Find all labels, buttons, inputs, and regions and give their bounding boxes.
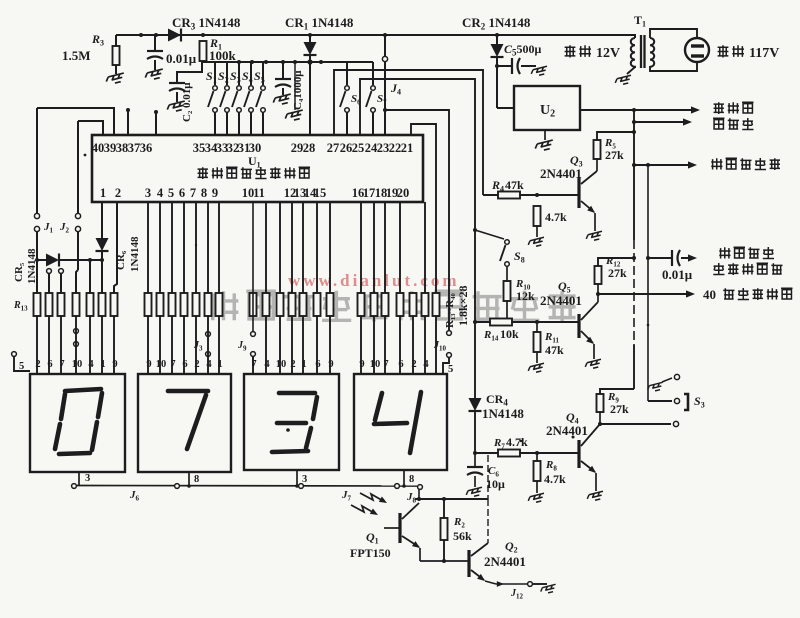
wire 40 ohm speaker line — [598, 293, 689, 295]
svg-text:4.7k: 4.7k — [545, 210, 567, 224]
resistor R6 4.7k — [534, 206, 541, 226]
svg-text:0.01μ: 0.01μ — [662, 267, 693, 282]
ground below Q5 emitter — [584, 359, 602, 370]
wire secondary to plug — [650, 29, 697, 38]
display digit 1 box — [30, 374, 125, 472]
wire Q2 emitter to J12 — [485, 581, 496, 584]
svg-text:27: 27 — [327, 141, 340, 155]
svg-text:C5500μ: C5500μ — [504, 42, 542, 58]
svg-text:CR2 1N4148: CR2 1N4148 — [462, 15, 531, 32]
label C4 1000u — [292, 70, 304, 110]
svg-text:6: 6 — [47, 359, 52, 370]
ground below C2 — [166, 101, 186, 113]
svg-text:15: 15 — [314, 186, 327, 200]
svg-text:39: 39 — [104, 141, 117, 155]
transformer core — [640, 35, 642, 68]
ground below R6 — [527, 237, 545, 248]
svg-text:36: 36 — [140, 141, 153, 155]
svg-text:6: 6 — [398, 359, 403, 370]
digit 0 — [65, 389, 101, 391]
svg-text:10: 10 — [370, 359, 381, 370]
diode CR5 1N4148 — [13, 262, 25, 282]
svg-text:28: 28 — [303, 141, 316, 155]
switch S1 — [214, 62, 216, 85]
ground below R8 — [527, 493, 545, 504]
svg-text:23: 23 — [377, 141, 390, 155]
wire 12V rail down — [633, 110, 635, 240]
label to radio audio amplifier — [719, 247, 730, 258]
resistor R8 4.7k — [536, 453, 538, 461]
diode CR6 1N4148 — [115, 250, 127, 270]
svg-text:21: 21 — [401, 141, 414, 155]
wire Q2 collector riser — [487, 455, 489, 499]
svg-text:6: 6 — [179, 186, 185, 200]
capacitor 0.01u top-left — [154, 35, 156, 51]
label AC 117V — [718, 45, 729, 57]
svg-text:3: 3 — [145, 186, 151, 200]
svg-text:35: 35 — [193, 141, 206, 155]
resistor R2 56k — [443, 499, 445, 518]
svg-text:27k: 27k — [608, 266, 627, 280]
wire route J4 to J10 — [385, 110, 449, 330]
svg-text:4: 4 — [88, 359, 94, 370]
svg-text:117V: 117V — [749, 46, 779, 61]
svg-text:1: 1 — [100, 186, 106, 200]
switch S4 — [250, 62, 252, 85]
svg-text:10: 10 — [156, 359, 167, 370]
svg-text:4: 4 — [423, 359, 429, 370]
resistor R9 27k — [600, 389, 634, 394]
scan specks — [84, 154, 87, 157]
wire radio ground line — [634, 164, 691, 166]
svg-text:CR1 1N4148: CR1 1N4148 — [285, 15, 354, 32]
svg-text:2N4401: 2N4401 — [484, 554, 526, 569]
wire route pin21 to resistor bank — [411, 124, 436, 293]
switch S5 — [262, 62, 264, 85]
watermark company name — [209, 291, 238, 320]
connector on J2 column — [74, 329, 79, 334]
svg-text:1N4148: 1N4148 — [26, 248, 38, 284]
svg-text:1: 1 — [301, 359, 306, 370]
svg-text:8: 8 — [194, 474, 199, 485]
svg-text:7: 7 — [59, 359, 64, 370]
svg-text:2: 2 — [411, 359, 416, 370]
wires resistor bank to displays — [36, 316, 38, 374]
svg-text:26: 26 — [340, 141, 353, 155]
svg-text:2: 2 — [194, 359, 199, 370]
wire route pin27 to R4 — [334, 70, 483, 195]
svg-text:7: 7 — [251, 359, 256, 370]
svg-text:47k: 47k — [545, 343, 564, 357]
connector J2 — [78, 121, 103, 135]
svg-text:9: 9 — [359, 359, 364, 370]
svg-text:12V: 12V — [596, 46, 620, 61]
svg-text:2: 2 — [35, 359, 40, 370]
svg-text:56k: 56k — [453, 529, 472, 543]
ground near pins 29-28 — [294, 62, 296, 110]
resistor bank R13-R40 1.8k x28 — [34, 293, 41, 316]
label R13-R40 1.8k x28 — [444, 292, 456, 328]
svg-text:20: 20 — [397, 186, 410, 200]
connector J9 — [252, 202, 254, 331]
switch S3 pushbutton — [674, 374, 679, 379]
switch S2 — [226, 62, 228, 85]
ground at J12 — [540, 584, 557, 594]
connector J10 — [448, 329, 450, 332]
ground below U2 — [544, 130, 546, 140]
svg-text:C₄1000μ: C₄1000μ — [292, 70, 304, 110]
svg-text:2N4401: 2N4401 — [540, 293, 582, 308]
svg-text:7: 7 — [383, 359, 388, 370]
capacitor 0.01u coupling — [646, 256, 650, 260]
wire top supply rail — [116, 34, 617, 36]
svg-text:17: 17 — [363, 186, 376, 200]
wire into U2 — [497, 107, 514, 109]
svg-text:8: 8 — [409, 474, 414, 485]
ground below R3 — [105, 73, 125, 85]
display digit 4 box — [354, 374, 447, 470]
ground below C6 — [465, 487, 483, 498]
svg-text:30: 30 — [249, 141, 262, 155]
svg-text:2: 2 — [115, 186, 121, 200]
svg-text:4.7k: 4.7k — [506, 435, 528, 449]
svg-text:25: 25 — [352, 141, 365, 155]
ground below Q4 emitter — [586, 491, 604, 502]
wire speaker return — [634, 121, 687, 123]
capacitor C4 1000u — [282, 62, 284, 79]
svg-text:0.01μ: 0.01μ — [166, 51, 197, 66]
svg-text:1.5M: 1.5M — [62, 48, 91, 63]
wire radio speaker output — [580, 109, 694, 111]
svg-text:2N4401: 2N4401 — [540, 166, 582, 181]
resistor R5 27k — [597, 132, 634, 140]
svg-text:27k: 27k — [605, 148, 624, 162]
svg-text:1N4148: 1N4148 — [482, 406, 524, 421]
wire stub pin 37 — [155, 112, 157, 135]
AC plug 117V — [685, 38, 709, 62]
svg-text:29: 29 — [291, 141, 304, 155]
IC U1 digital clock chip — [92, 135, 423, 202]
switch S7 — [372, 62, 374, 85]
svg-text:6: 6 — [315, 359, 320, 370]
svg-text:37: 37 — [128, 141, 141, 155]
digit 3 — [279, 391, 315, 396]
display 1 pin 5 lead — [12, 352, 17, 357]
svg-text:3: 3 — [302, 474, 307, 485]
switch S6 — [346, 62, 348, 85]
svg-text:6: 6 — [182, 359, 187, 370]
svg-text:5: 5 — [168, 186, 174, 200]
svg-text:11: 11 — [253, 186, 265, 200]
label AC 12V — [565, 45, 576, 57]
svg-text:1: 1 — [100, 359, 105, 370]
svg-text:2: 2 — [290, 359, 295, 370]
svg-text:7: 7 — [190, 186, 196, 200]
resistor R10 12k — [504, 281, 511, 301]
display digit 3 box — [244, 374, 339, 470]
svg-text:9: 9 — [146, 359, 151, 370]
svg-text:38: 38 — [116, 141, 129, 155]
svg-text:1N4148: 1N4148 — [129, 236, 141, 272]
light arrows into Q1 — [351, 493, 385, 514]
svg-text:FPT150: FPT150 — [350, 546, 391, 560]
svg-text:9: 9 — [112, 359, 117, 370]
svg-text:R₁₃~R₄₀: R₁₃~R₄₀ — [444, 292, 456, 328]
label radio ground — [711, 158, 722, 169]
svg-text:9: 9 — [328, 359, 333, 370]
capacitor C6 10u — [474, 453, 476, 467]
digit 4 — [375, 393, 382, 420]
svg-text:3: 3 — [85, 473, 90, 484]
svg-text:1.8k×28: 1.8k×28 — [456, 285, 470, 326]
svg-text:10: 10 — [72, 359, 83, 370]
connector J4 — [384, 35, 386, 56]
wire stub pin 38 — [127, 110, 129, 135]
svg-text:47k: 47k — [505, 178, 524, 192]
wire resistor column stubs — [47, 269, 52, 274]
ground below Q3 emitter — [585, 231, 603, 242]
connector J3 — [206, 332, 211, 337]
connector J1 — [36, 108, 38, 213]
svg-text:7: 7 — [170, 359, 175, 370]
ground below C4 — [272, 94, 292, 106]
wire Q4 collector to S3 — [600, 423, 671, 425]
wire branch down from ground line — [647, 165, 649, 401]
svg-text:10μ: 10μ — [486, 477, 505, 491]
wire C2 branch — [177, 62, 202, 83]
display digit 2 box — [138, 374, 231, 472]
wires IC pins to resistor bank — [147, 202, 149, 293]
svg-text:4: 4 — [206, 359, 212, 370]
svg-text:22: 22 — [389, 141, 402, 155]
ground below transformer primary — [614, 75, 632, 86]
resistor R14 10k — [475, 321, 579, 323]
resistor R11 47k — [536, 322, 538, 332]
svg-text:4.7k: 4.7k — [544, 472, 566, 486]
IC label digital clock circuit — [198, 167, 208, 179]
svg-text:100k: 100k — [209, 48, 237, 63]
svg-text:40: 40 — [92, 141, 105, 155]
svg-text:12k: 12k — [516, 289, 535, 303]
capacitor C2 0.01u — [169, 83, 185, 91]
ground right of C5 — [530, 66, 548, 77]
wire Q1 emitter to Q2 base — [420, 560, 469, 562]
svg-text:27k: 27k — [610, 402, 629, 416]
svg-text:1: 1 — [217, 359, 222, 370]
svg-text:5: 5 — [448, 364, 453, 375]
svg-text:4: 4 — [157, 186, 164, 200]
switch S3 — [238, 62, 240, 85]
wire display common bus — [78, 472, 80, 485]
wire route pin25 to CR4 branch — [360, 79, 475, 230]
svg-text:5: 5 — [19, 361, 24, 372]
wire CR1 to IC pin 28 — [309, 62, 311, 135]
resistor R12 27k — [595, 266, 602, 284]
ground below R11 — [527, 363, 545, 374]
switch S8 — [475, 230, 504, 239]
svg-text:8: 8 — [201, 186, 207, 200]
regulator U2 — [514, 86, 580, 130]
wire left rail to IC — [37, 108, 114, 135]
wire switch bus — [202, 61, 373, 63]
ground below top-left capacitor — [144, 69, 164, 81]
transformer secondary — [650, 38, 654, 67]
svg-text:10k: 10k — [500, 327, 519, 341]
wire J8 to Q1 Q2 — [418, 490, 420, 500]
svg-text:CR3 1N4148: CR3 1N4148 — [172, 15, 241, 32]
svg-text:CR₅: CR₅ — [13, 262, 25, 282]
svg-text:10: 10 — [276, 359, 287, 370]
label radio speaker — [714, 102, 724, 114]
resistor R1 100k — [200, 41, 207, 61]
svg-text:9: 9 — [212, 186, 218, 200]
digit 7 — [168, 389, 208, 394]
svg-text:4: 4 — [264, 359, 270, 370]
resistor R7 4.7k — [473, 451, 477, 455]
svg-text:40: 40 — [703, 287, 716, 302]
phototransistor Q1 FPT150 — [398, 513, 401, 543]
svg-text:2N4401: 2N4401 — [546, 423, 588, 438]
